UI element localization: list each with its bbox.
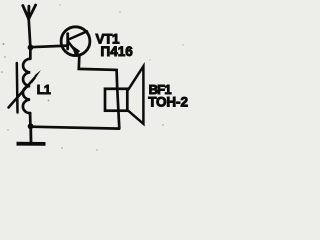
- ground: [17, 142, 46, 146]
- wire antenna mast to node A: [29, 19, 31, 48]
- headphone BF1 horn: [128, 66, 143, 124]
- L1 variable arrow: [9, 70, 42, 108]
- headphone BF1 body: [105, 89, 127, 111]
- node B junction dot: [28, 123, 34, 129]
- svg-text:L1: L1: [37, 83, 51, 97]
- wire node A to L1 top: [29, 48, 32, 59]
- wire L1 bottom to node B: [29, 113, 32, 126]
- wire node B to BF1 bottom: [31, 127, 120, 129]
- wire node A to transistor base: [31, 46, 68, 48]
- node A junction dot: [28, 45, 34, 51]
- wire node B to ground: [29, 126, 32, 142]
- scan speckles: [1, 4, 183, 150]
- antenna: [23, 5, 36, 19]
- wire emitter to BF1 top: [79, 56, 120, 128]
- svg-text:П416: П416: [101, 44, 134, 59]
- L1 core line: [16, 63, 19, 113]
- inductor L1 coil winding: [23, 59, 30, 113]
- transistor VT1: [61, 27, 90, 56]
- svg-text:ТОН-2: ТОН-2: [148, 94, 188, 109]
